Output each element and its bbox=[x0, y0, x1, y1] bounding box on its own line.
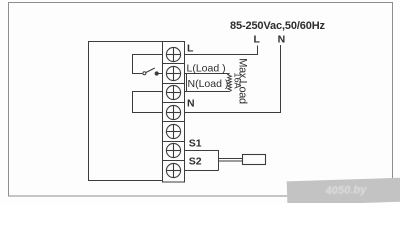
wire: internal from terminal L left and down to relay bbox=[133, 55, 163, 74]
terminal 2 (L Load) screw bbox=[166, 66, 180, 80]
svg-text:N: N bbox=[278, 34, 286, 46]
wire: N(Load) terminal to load element bbox=[185, 91, 230, 93]
thermostat body bbox=[89, 42, 163, 181]
terminal 7 (S2) screw bbox=[166, 163, 180, 177]
svg-text:N(Load ): N(Load ) bbox=[188, 78, 229, 90]
terminal 3 (N Load) screw bbox=[166, 85, 180, 99]
svg-text:4050.by: 4050.by bbox=[324, 184, 367, 197]
svg-text:N: N bbox=[187, 98, 195, 110]
wire: S2 terminal to sensor cable bbox=[185, 170, 219, 172]
sensor probe bbox=[243, 155, 266, 165]
terminal 5 (unused) screw bbox=[166, 124, 180, 138]
svg-text:L: L bbox=[187, 43, 194, 55]
sensor cable (twin lead) bbox=[219, 158, 243, 160]
watermark 4050.by bbox=[287, 177, 400, 205]
svg-text:S1: S1 bbox=[189, 138, 202, 150]
wire: L terminal to L supply bbox=[185, 46, 258, 55]
svg-text:L: L bbox=[254, 34, 261, 46]
load element (heater zigzag) bbox=[228, 74, 232, 92]
relay contact (internal switch) bbox=[143, 68, 163, 75]
wire: L(Load) terminal to load element bbox=[185, 73, 230, 75]
wire: S1 terminal to sensor cable bbox=[185, 151, 219, 171]
load box left edge bbox=[186, 74, 188, 92]
svg-text:16A: 16A bbox=[233, 72, 243, 89]
terminal block bbox=[163, 42, 185, 183]
terminal 4 (N) screw bbox=[166, 105, 180, 119]
terminal block divider lines bbox=[163, 64, 185, 161]
svg-text:85-250Vac,50/60Hz: 85-250Vac,50/60Hz bbox=[230, 20, 326, 32]
wire: N terminal to N supply bbox=[185, 45, 281, 113]
terminal 6 (S1) screw bbox=[166, 143, 180, 157]
wire: internal jumper N(Load) to N bbox=[133, 92, 163, 113]
svg-text:S2: S2 bbox=[189, 156, 202, 168]
svg-text:L(Load ): L(Load ) bbox=[187, 63, 226, 75]
terminal 1 (L) screw bbox=[166, 47, 180, 61]
